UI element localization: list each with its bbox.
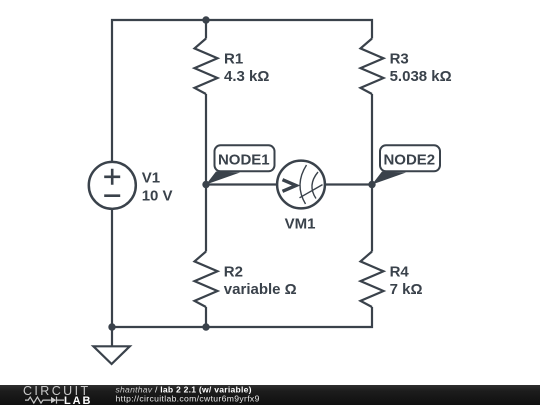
wire NODE1 to voltmeter <box>206 183 277 185</box>
wire R2 bottom stub <box>205 307 207 327</box>
node NODE1 junction dot <box>202 181 209 188</box>
node label NODE1 <box>206 145 275 184</box>
voltmeter VM1 circle <box>277 161 325 209</box>
wire top rail with V1 top stub and R3 top stub <box>112 20 372 162</box>
svg-text:variable Ω: variable Ω <box>224 281 297 298</box>
svg-text:R3: R3 <box>390 51 409 68</box>
resistor R1 body <box>195 39 218 95</box>
wire R2 top stub <box>205 185 207 252</box>
wire ground stub <box>111 327 113 346</box>
svg-text:LAB: LAB <box>64 395 92 405</box>
junction dot bottom rail / R2 <box>202 323 209 330</box>
svg-text:R2: R2 <box>224 264 243 281</box>
voltmeter needle <box>300 185 323 198</box>
node NODE2 junction dot <box>368 181 375 188</box>
footer bar <box>0 384 540 405</box>
ground symbol <box>93 346 129 364</box>
junction dot bottom rail / ground <box>108 323 115 330</box>
wire V1 bottom stub <box>111 208 113 327</box>
voltage source V1 circle <box>89 162 136 209</box>
svg-text:R4: R4 <box>390 264 410 281</box>
junction dot top rail / R1 <box>202 16 209 23</box>
V1 plus sign <box>104 169 120 185</box>
svg-text:4.3 kΩ: 4.3 kΩ <box>224 68 269 85</box>
voltmeter scale arc left <box>300 165 307 204</box>
wire R1 top stub <box>205 20 207 39</box>
svg-text:R1: R1 <box>224 51 243 68</box>
wire voltmeter to NODE2 <box>325 183 372 185</box>
wire bottom rail with R4 bottom stub <box>112 307 372 327</box>
wire R3 bottom to NODE2 <box>371 94 373 185</box>
wire R1 bottom to NODE1 <box>205 94 207 185</box>
svg-text:VM1: VM1 <box>285 216 316 233</box>
svg-text:NODE2: NODE2 <box>383 151 435 168</box>
wire R4 top stub <box>371 185 373 252</box>
voltmeter scale arc right <box>312 172 318 199</box>
svg-text:10 V: 10 V <box>142 187 173 204</box>
voltmeter polarity mark > <box>283 180 297 192</box>
svg-text:7 kΩ: 7 kΩ <box>390 281 423 298</box>
resistor R3 body <box>361 39 384 95</box>
resistor R2 body <box>195 252 218 308</box>
V1 minus sign <box>104 194 120 197</box>
resistor R4 body <box>361 252 384 308</box>
logo schematic squiggle <box>25 397 64 404</box>
svg-text:NODE1: NODE1 <box>218 151 270 168</box>
svg-text:5.038 kΩ: 5.038 kΩ <box>390 68 452 85</box>
logo diode triangle <box>51 397 56 403</box>
svg-text:V1: V1 <box>142 170 160 187</box>
svg-text:http://circuitlab.com/cwtur6m9: http://circuitlab.com/cwtur6m9yrfx9 <box>116 394 260 404</box>
node label NODE2 <box>372 145 440 184</box>
